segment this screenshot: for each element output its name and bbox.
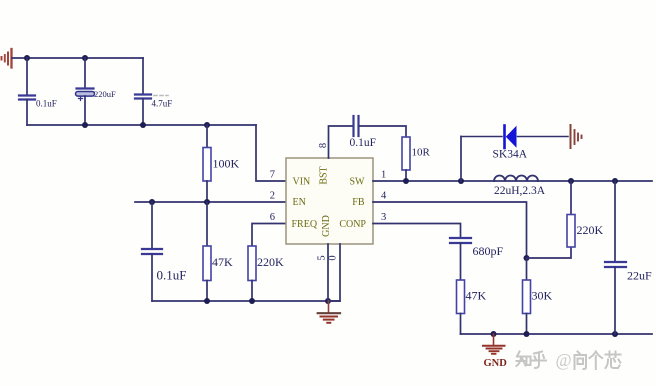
wire bottom input rail bbox=[27, 124, 256, 126]
svg-text:10R: 10R bbox=[412, 147, 431, 159]
power port P2 (red, right) bbox=[571, 125, 582, 148]
svg-text:0.1uF: 0.1uF bbox=[157, 268, 187, 283]
node R2 bottom bbox=[204, 298, 210, 304]
个 bbox=[590, 352, 603, 370]
wire FREQ trace bbox=[252, 224, 286, 247]
svg-text:FREQ: FREQ bbox=[292, 219, 318, 230]
svg-text:8: 8 bbox=[318, 143, 329, 148]
svg-text:4: 4 bbox=[381, 191, 387, 202]
wire C2 bottom lead bbox=[84, 96, 86, 125]
node GND tap bbox=[491, 331, 497, 337]
svg-text:220uF: 220uF bbox=[94, 89, 116, 99]
resistor R7 47K (right) bbox=[457, 280, 465, 314]
wire bottom-right ground rail bbox=[461, 333, 653, 335]
wire R6 top lead bbox=[526, 258, 528, 280]
resistor R6 30K bbox=[523, 280, 531, 314]
svg-text:5: 5 bbox=[317, 255, 328, 260]
svg-text:100K: 100K bbox=[213, 157, 240, 171]
svg-text:3: 3 bbox=[381, 212, 386, 223]
wire R2 bottom lead bbox=[206, 281, 208, 302]
ground (red earth below U1) bbox=[318, 301, 340, 323]
wire top input rail bbox=[12, 57, 143, 59]
svg-text:4.7uF: 4.7uF bbox=[152, 99, 173, 109]
svg-text:0: 0 bbox=[328, 255, 339, 260]
node R5 top bbox=[568, 178, 574, 184]
wire EN rail bbox=[135, 201, 286, 203]
wire SW output rail bbox=[373, 180, 652, 182]
node C2 bottom bbox=[82, 122, 88, 128]
svg-text:0.1uF: 0.1uF bbox=[36, 99, 57, 109]
capacitor C6 680pF bbox=[450, 238, 471, 243]
resistor R3 220K bbox=[248, 246, 256, 281]
inductor L1 22uH bbox=[494, 176, 538, 182]
resistor R5 220K bbox=[567, 215, 575, 248]
capacitor C5 0.1uF (BST) bbox=[354, 116, 359, 136]
svg-text:30K: 30K bbox=[532, 289, 553, 303]
svg-text:GND: GND bbox=[321, 215, 332, 237]
wire R1 bottom lead bbox=[206, 181, 208, 202]
svg-text:@: @ bbox=[556, 350, 572, 370]
capacitor C7 22uF bbox=[605, 262, 626, 267]
wire C2 top lead bbox=[84, 58, 86, 89]
svg-text:220K: 220K bbox=[577, 223, 604, 237]
wire R4 bottom lead bbox=[405, 170, 407, 181]
wire diode anode lead bbox=[518, 136, 569, 138]
svg-text:47K: 47K bbox=[466, 289, 487, 303]
svg-text:GND: GND bbox=[484, 358, 508, 369]
svg-text:680pF: 680pF bbox=[473, 244, 504, 258]
node R3 bottom bbox=[249, 298, 255, 304]
wire FB trace bbox=[373, 202, 527, 258]
wire C1 bottom lead bbox=[26, 100, 28, 126]
知 bbox=[517, 352, 526, 367]
wire C3 top lead bbox=[142, 58, 144, 95]
wire U1 bottom pin 5 bbox=[327, 244, 329, 301]
wire diode cathode lead bbox=[461, 136, 502, 138]
capacitor C2 220uF electrolytic bbox=[76, 89, 95, 101]
resistor R2 47K bbox=[203, 246, 211, 281]
wire diode branch riser bbox=[460, 137, 462, 182]
node R1/R2 bbox=[204, 199, 210, 205]
node R1 top bbox=[204, 122, 210, 128]
wire R6 bottom lead bbox=[526, 314, 528, 335]
wire VIN drop bbox=[256, 125, 286, 181]
svg-text:BST: BST bbox=[319, 166, 330, 184]
wire BST trace bbox=[329, 126, 354, 158]
svg-text:22uH,2.3A: 22uH,2.3A bbox=[494, 185, 546, 197]
wire R3 bottom lead bbox=[251, 281, 253, 302]
resistor R4 10R bbox=[402, 137, 410, 170]
node junction top rail / C2 bbox=[82, 55, 88, 61]
svg-text:6: 6 bbox=[270, 212, 275, 223]
capacitor C4 0.1uF bbox=[142, 249, 162, 254]
node IC ground bbox=[325, 298, 331, 304]
问 bbox=[575, 352, 587, 370]
node C7 bottom bbox=[612, 331, 618, 337]
wire R1 top lead bbox=[206, 125, 208, 148]
node junction top rail / C1 bbox=[24, 55, 30, 61]
node C3 bottom bbox=[140, 122, 146, 128]
芯 bbox=[606, 352, 621, 369]
capacitor C3 4.7uF bbox=[135, 95, 151, 99]
node FB bbox=[524, 255, 530, 261]
op-amp U1 body bbox=[286, 158, 373, 244]
node diode branch bbox=[458, 178, 464, 184]
svg-text:0.1uF: 0.1uF bbox=[350, 137, 377, 149]
svg-text:VIN: VIN bbox=[293, 176, 311, 187]
diode D1 SK34A bbox=[505, 126, 517, 149]
svg-text:EN: EN bbox=[293, 197, 306, 208]
wire C1 top lead bbox=[26, 58, 28, 95]
svg-text:22uF: 22uF bbox=[627, 269, 652, 283]
wire R7 bottom lead bbox=[460, 314, 462, 335]
wire bottom-left ground rail bbox=[152, 300, 340, 302]
power port P1 (red, left) bbox=[2, 49, 12, 68]
svg-text:CONP: CONP bbox=[339, 219, 366, 230]
wire C7 top lead bbox=[614, 181, 616, 262]
node R6 bottom bbox=[524, 331, 530, 337]
wire BST cap to R4 bbox=[359, 126, 406, 137]
wire U1 bottom pin 0 bbox=[328, 244, 340, 301]
svg-text:7: 7 bbox=[270, 170, 275, 181]
wire C3 bottom lead bbox=[142, 99, 144, 126]
wire R2 top lead bbox=[206, 202, 208, 246]
svg-text:2: 2 bbox=[270, 191, 275, 202]
ground GND (red earth bottom) bbox=[483, 334, 505, 354]
watermark 知乎 @问个芯 bbox=[517, 352, 547, 369]
wire FB node to R5 bottom bbox=[527, 247, 572, 258]
svg-text:1: 1 bbox=[381, 170, 386, 181]
wire CONP trace bbox=[373, 224, 461, 238]
capacitor C1 0.1uF bbox=[19, 96, 35, 100]
node R4/SW bbox=[403, 178, 409, 184]
wire C4 top lead bbox=[151, 202, 153, 249]
svg-text:220K: 220K bbox=[257, 255, 284, 269]
svg-text:SW: SW bbox=[350, 176, 366, 187]
svg-text:FB: FB bbox=[352, 197, 365, 208]
svg-text:47K: 47K bbox=[212, 255, 233, 269]
wire R5 top lead bbox=[570, 181, 572, 215]
svg-text:SK34A: SK34A bbox=[493, 149, 528, 161]
node C7 top bbox=[612, 178, 618, 184]
乎 bbox=[532, 352, 546, 369]
wire C6 bottom lead bbox=[460, 243, 462, 280]
wire C4 bottom lead bbox=[151, 254, 153, 301]
node C4 top bbox=[149, 199, 155, 205]
resistor R1 100K bbox=[203, 148, 211, 182]
wire C7 bottom lead bbox=[614, 267, 616, 334]
